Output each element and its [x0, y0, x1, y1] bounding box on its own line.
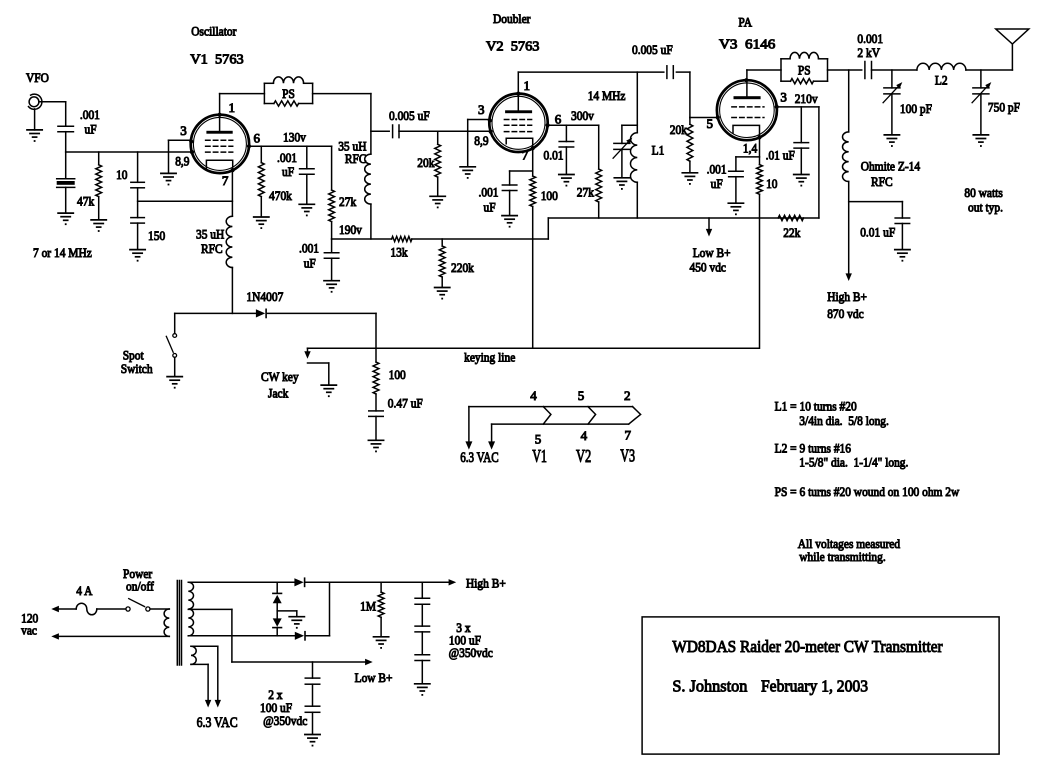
ground 20k V3	[682, 173, 697, 185]
svg-text:1: 1	[524, 78, 531, 93]
diode stack lower	[273, 618, 282, 635]
svg-text:7 or 14 MHz: 7 or 14 MHz	[33, 245, 92, 260]
stage label Doubler	[493, 11, 531, 26]
note L1 line1	[775, 398, 857, 413]
heater rail top	[469, 406, 633, 408]
label L1	[652, 143, 665, 158]
heater 6.3VAC arrow 2	[488, 424, 495, 450]
antenna	[996, 29, 1029, 44]
stage label PA	[738, 15, 752, 30]
parasitic suppressor PS V1	[264, 77, 312, 106]
wire L1 bottom	[636, 182, 638, 218]
note L1 line2	[799, 413, 889, 428]
resistor 27k V1 dropping	[329, 146, 335, 239]
svg-text:10: 10	[766, 176, 777, 191]
tube V1 pin dots	[189, 113, 251, 173]
capacitor 0.001 2kV blocking	[865, 62, 872, 79]
heater 6.3VAC arrow 1	[465, 407, 472, 450]
svg-text:L2 = 9 turns #16: L2 = 9 turns #16	[775, 441, 852, 456]
heater rail bottom	[492, 423, 629, 425]
pin label 6 V1	[254, 131, 261, 146]
svg-text:6: 6	[254, 131, 261, 146]
wire C1 to node A	[65, 132, 67, 152]
resistor 20k V2 grid	[435, 131, 441, 196]
pin 4 V1 heater	[530, 388, 537, 403]
svg-text:Low B+: Low B+	[355, 670, 393, 685]
capacitor C .001 uF VFO coupling	[58, 126, 73, 132]
ground CW key jack	[321, 385, 336, 397]
label 10	[116, 167, 127, 182]
arrow Low B+ takeoff	[706, 218, 712, 237]
svg-text:300v: 300v	[571, 108, 594, 123]
variable capacitor tank V2	[613, 125, 632, 190]
transformer 6.3V winding	[191, 646, 196, 664]
svg-text:100: 100	[541, 188, 558, 203]
label 120	[21, 611, 38, 626]
wire tank cap link	[622, 124, 637, 126]
tube V3 cathode	[733, 125, 760, 137]
svg-text:1N4007: 1N4007	[246, 289, 283, 304]
label Power	[123, 566, 153, 581]
pin label 1 V1	[229, 100, 236, 115]
parasitic suppressor PS V3	[781, 52, 828, 83]
ground 1M	[374, 637, 389, 649]
wire V3 cathode to keying line	[759, 194, 761, 348]
VFO label	[26, 70, 49, 85]
svg-text:150: 150	[148, 228, 165, 243]
label 22k	[783, 225, 801, 240]
label CW key	[261, 369, 299, 384]
label 47k	[77, 194, 95, 209]
ground cathode cap V2	[502, 216, 517, 228]
label .001 cathode V3	[707, 161, 727, 176]
tube V3 envelope	[717, 80, 777, 140]
tube V2 cathode	[506, 138, 533, 148]
label 0.005 uF coupling2	[632, 42, 673, 57]
wire L2 to antenna	[966, 44, 1013, 70]
author text	[672, 677, 747, 696]
label RFC ohmite	[871, 174, 893, 189]
wire keying line	[308, 347, 759, 349]
label 100 uF low	[260, 700, 292, 715]
wire L1 branch	[636, 72, 638, 133]
svg-text:4: 4	[581, 428, 588, 443]
wire V2 plate riser	[517, 72, 519, 110]
svg-text:V2: V2	[576, 446, 591, 466]
label 13k	[390, 245, 408, 260]
svg-text:February 1, 2003: February 1, 2003	[761, 677, 868, 696]
label 190v	[339, 222, 362, 237]
svg-text:uF: uF	[711, 176, 723, 191]
capacitor 0.47 uF key filter	[369, 394, 384, 440]
capacitor 0.005 uF coupling V1-V2	[393, 125, 399, 138]
label 220k	[451, 260, 474, 275]
wire V3 plate riser	[747, 70, 781, 96]
label 14 MHz	[588, 88, 626, 103]
label 0.47 uF	[388, 396, 423, 411]
svg-text:27k: 27k	[577, 185, 595, 200]
svg-text:out typ.: out typ.	[968, 199, 1003, 214]
svg-text:.001: .001	[479, 185, 499, 200]
transformer primary	[164, 609, 169, 636]
ground screen bypass V1	[299, 204, 314, 216]
pin label 3 V3	[780, 90, 787, 105]
svg-text:L2: L2	[935, 73, 948, 88]
label Low B+	[693, 245, 731, 260]
svg-text:22k: 22k	[783, 225, 801, 240]
inductor Ohmite Z-14 RFC	[843, 132, 849, 182]
svg-text:20k: 20k	[417, 155, 435, 170]
label 80 watts	[964, 185, 1002, 200]
label RFC (cathode choke)	[201, 241, 223, 256]
diode 1N4007	[256, 309, 266, 317]
label L2	[935, 73, 948, 88]
wire fuse to switch	[97, 608, 126, 610]
wire V1 pin3 bracket	[169, 140, 192, 173]
pin label 6 V2	[555, 112, 562, 127]
tube designator V1 5763	[190, 53, 243, 68]
wire 6.3V tap top	[191, 646, 221, 707]
pin label 3 V1	[180, 123, 187, 138]
svg-text:Low B+: Low B+	[693, 245, 731, 260]
pin 2 V3 heater	[624, 388, 631, 403]
svg-text:High B+: High B+	[827, 289, 867, 304]
capacitor stack 3x100uF	[415, 582, 430, 683]
capacitor 10 pF feedback	[131, 152, 145, 188]
svg-text:V3 6146: V3 6146	[719, 38, 775, 53]
label 4 A	[76, 583, 93, 598]
label 100 key	[389, 367, 406, 382]
wire HV top line	[188, 579, 456, 585]
label 300v	[571, 108, 594, 123]
label uF cathode V2	[484, 200, 496, 215]
svg-text:450 vdc: 450 vdc	[690, 260, 727, 275]
label 100 uF high	[449, 633, 481, 648]
svg-text:210v: 210v	[795, 91, 818, 106]
wire stack midpoint to ground	[277, 611, 297, 617]
svg-text:@350vdc: @350vdc	[263, 713, 307, 728]
capacitor .001 uF cathode V3 branch	[729, 157, 760, 203]
svg-text:on/off: on/off	[126, 579, 154, 594]
svg-text:10: 10	[116, 167, 127, 182]
label on/off	[126, 579, 154, 594]
svg-text:130v: 130v	[283, 130, 306, 145]
wire center tap	[188, 609, 372, 665]
tube V1 grid dashes	[206, 140, 233, 152]
label 750 pF	[988, 100, 1020, 115]
transformer core	[177, 581, 181, 666]
wire V3 cathode down	[759, 137, 761, 164]
wire V2 pin6 300v line	[548, 124, 599, 126]
svg-text:S. Johnston: S. Johnston	[672, 677, 747, 696]
svg-text:3: 3	[478, 102, 485, 117]
label 450 vdc	[690, 260, 727, 275]
label keying line	[464, 350, 515, 365]
wire diode to key RC	[375, 313, 377, 362]
wire VFO to C1	[39, 102, 66, 126]
ground VFO	[27, 130, 42, 142]
wire V1 pin7 down	[231, 170, 233, 216]
diode rectifier bottom	[295, 632, 305, 640]
label .001	[80, 107, 100, 122]
label Spot	[123, 348, 144, 363]
ground 190v bypass	[324, 281, 339, 293]
pin 4 V2 heater	[581, 428, 588, 443]
capacitor 150 pF feedback	[131, 218, 145, 250]
resistor 100 cathode V2	[530, 176, 536, 207]
inductor L1	[630, 133, 637, 183]
ground padder	[58, 213, 73, 225]
svg-text:0.47 uF: 0.47 uF	[388, 396, 423, 411]
svg-text:V2 5763: V2 5763	[486, 40, 540, 55]
wire V3 pin5	[690, 117, 718, 119]
svg-text:Ohmite Z-14: Ohmite Z-14	[861, 159, 921, 174]
pin label 3 V2	[478, 102, 485, 117]
label 0.01 uF HV	[860, 225, 895, 240]
wire V2 cathode down	[532, 148, 534, 176]
power switch	[126, 599, 150, 612]
note L2 line1	[775, 441, 852, 456]
CW key jack	[308, 363, 329, 385]
wire cathode RFC to key line	[231, 268, 233, 314]
inductor 35 uH RFC plate choke V1	[365, 154, 371, 204]
note voltages line2	[799, 549, 885, 564]
wire 13k to 220k	[412, 238, 548, 240]
resistor 10 cathode V3	[757, 165, 763, 195]
wire low B+ bus	[548, 217, 819, 219]
svg-text:4: 4	[530, 388, 537, 403]
wire V2 pin3 bracket	[468, 120, 490, 167]
label High B+ feed	[827, 289, 867, 304]
wire 190v line	[332, 238, 392, 240]
svg-text:vac: vac	[21, 623, 37, 638]
resistor 220k	[439, 239, 445, 287]
pin label 8,9 V2	[474, 133, 488, 148]
capacitor 0.01 uF screen bypass V2	[559, 125, 574, 174]
capacitor .001 uF 190v bypass	[324, 239, 339, 281]
svg-text:47k: 47k	[77, 194, 95, 209]
spot switch	[166, 313, 176, 376]
svg-text:.01 uF: .01 uF	[766, 148, 795, 163]
label 2 kV	[857, 45, 880, 60]
svg-text:RFC: RFC	[345, 151, 367, 166]
label Low B+ psu	[355, 670, 393, 685]
inductor L2	[917, 63, 966, 70]
pin label 5 V3	[707, 116, 714, 131]
ground 150	[130, 250, 145, 262]
note voltages line1	[798, 536, 901, 551]
wire V1 pin6 130v line	[249, 145, 332, 147]
wire node A main grid line	[66, 151, 192, 153]
label 0.01 V2	[544, 148, 564, 163]
svg-text:PS: PS	[282, 86, 295, 101]
ground 470k	[254, 217, 269, 229]
capacitor .001 uF cathode V2 branch	[502, 171, 532, 215]
label 6.3 VAC psu	[197, 715, 238, 731]
svg-text:while transmitting.: while transmitting.	[799, 549, 885, 564]
ground key filter	[368, 440, 383, 452]
capacitor 0.005 uF coupling V2-V3	[667, 66, 673, 79]
tube V3 plate	[734, 96, 761, 99]
label 20k V2 grid	[417, 155, 435, 170]
tube V2 grid dashes	[504, 120, 531, 132]
capacitor 0.01 uF HV bypass	[849, 202, 910, 250]
svg-text:5: 5	[535, 432, 542, 447]
variable capacitor 100 pF plate tune	[883, 70, 902, 147]
wire RFC to High B+	[846, 182, 852, 282]
svg-text:RFC: RFC	[871, 174, 893, 189]
tube V1 envelope	[191, 115, 249, 173]
label 100 V2	[541, 188, 558, 203]
label 210v	[795, 91, 818, 106]
label 0.005 uF coupling1	[389, 108, 430, 123]
svg-text:L1 = 10 turns #20: L1 = 10 turns #20	[775, 398, 857, 413]
resistor 100 key filter	[373, 362, 379, 394]
resistor 27k V2 screen	[596, 125, 602, 218]
svg-text:VFO: VFO	[26, 70, 49, 85]
diode stack upper	[273, 582, 282, 618]
svg-text:0.01: 0.01	[544, 148, 564, 163]
svg-text:V3: V3	[620, 446, 635, 466]
AC line top with arrow	[51, 606, 76, 612]
tube V1 cathode	[206, 160, 232, 170]
label 2 x	[268, 687, 283, 702]
svg-text:870 vdc: 870 vdc	[827, 306, 864, 321]
heater chevron V2	[588, 407, 596, 425]
tube designator V2 5763	[486, 40, 540, 55]
resistor 470k	[258, 146, 264, 217]
svg-text:0.005 uF: 0.005 uF	[389, 108, 430, 123]
label 100 pF	[900, 101, 932, 116]
pin label 1,4 V3	[743, 141, 758, 156]
wire cap10 to cap150	[137, 188, 139, 218]
wire bridge return	[329, 582, 331, 636]
label uF screen V1	[282, 164, 294, 179]
label 3 x	[456, 620, 471, 635]
note PS	[775, 484, 960, 499]
svg-text:220k: 220k	[451, 260, 474, 275]
capacitor .001 uF screen bypass V1	[300, 146, 315, 204]
label 10 V3	[766, 176, 777, 191]
label @350vdc high	[449, 645, 493, 660]
label 6.3 VAC heater	[460, 450, 499, 466]
title text	[672, 637, 943, 656]
svg-text:7: 7	[625, 428, 632, 443]
heater chevron V1	[543, 407, 551, 425]
svg-text:Oscillator: Oscillator	[191, 24, 237, 39]
inductor 35 uH RFC cathode choke V1	[226, 216, 232, 267]
svg-text:1M: 1M	[360, 599, 376, 614]
date text	[761, 677, 868, 696]
svg-text:2 kV: 2 kV	[857, 45, 880, 60]
label 27k V1	[339, 194, 357, 209]
pin 5 V2 heater	[578, 388, 585, 403]
tube V1 plate	[206, 131, 232, 134]
ground spot switch	[167, 377, 182, 389]
svg-text:2: 2	[624, 388, 631, 403]
ground 20k V2	[430, 196, 445, 208]
tube V2 envelope	[489, 94, 547, 152]
label Jack	[268, 385, 289, 400]
label @350vdc low	[263, 713, 307, 728]
ground V2 pin3	[460, 167, 475, 179]
wire RFC to 190v node	[370, 204, 372, 239]
ground cathode cap V3	[728, 203, 743, 215]
svg-text:27k: 27k	[339, 194, 357, 209]
wire PS V1 to RFC	[313, 94, 371, 155]
svg-text:0.001: 0.001	[857, 31, 883, 46]
label vac	[21, 623, 37, 638]
svg-text:100 pF: 100 pF	[900, 101, 932, 116]
ground 47k	[91, 220, 106, 232]
label 1M	[360, 599, 376, 614]
svg-text:V1: V1	[532, 446, 547, 466]
svg-text:6.3 VAC: 6.3 VAC	[460, 450, 499, 466]
label 35 uH (plate choke)	[338, 139, 366, 154]
wire 22k to 210v node	[818, 107, 820, 218]
wire C3 to V3 grid	[676, 72, 690, 117]
ground 220k	[435, 288, 450, 300]
resistor 47k grid leak	[96, 152, 102, 220]
pin label 8,9 V1	[175, 154, 189, 169]
ground V1 pin3	[161, 173, 176, 185]
label 1N4007	[246, 289, 283, 304]
svg-text:.001: .001	[80, 107, 100, 122]
pin label 1 V2	[524, 78, 531, 93]
capacitor .01 uF screen bypass V3	[794, 107, 809, 174]
label 130v	[283, 130, 306, 145]
resistor 20k V3 grid	[687, 118, 693, 173]
label 27k V2	[577, 185, 595, 200]
label uF cathode V3	[711, 176, 723, 191]
title block box	[642, 617, 999, 754]
svg-text:35 uH: 35 uH	[196, 227, 224, 242]
wire HV bottom line	[188, 635, 329, 637]
svg-text:.001: .001	[277, 150, 297, 165]
svg-text:470k: 470k	[269, 188, 292, 203]
wire C2 to V2 grid	[399, 130, 490, 132]
arrow CW key tip	[304, 348, 310, 359]
tube V3 pin dots	[716, 78, 779, 139]
wire V3 pin3 210v line	[777, 106, 819, 108]
svg-text:5: 5	[707, 116, 714, 131]
svg-text:CW key: CW key	[261, 369, 299, 384]
svg-text:High B+: High B+	[466, 576, 506, 591]
svg-text:6.3 VAC: 6.3 VAC	[197, 715, 238, 731]
label Switch	[121, 361, 153, 376]
wire keying bus 1N4007 line	[175, 312, 376, 314]
wire V1 plate riser	[220, 94, 265, 131]
wire V2 cathode to keying line	[532, 207, 534, 349]
fuse 4A	[76, 603, 97, 615]
ground HV bypass	[895, 250, 910, 262]
wire PS V3 to output	[828, 69, 862, 71]
label .001 190v	[299, 241, 319, 256]
label 7 or 14 MHz	[33, 245, 92, 260]
svg-text:1-5/8" dia. 1-1/4" long.: 1-5/8" dia. 1-1/4" long.	[799, 455, 908, 470]
wire switch to primary	[150, 608, 169, 610]
svg-text:V1 5763: V1 5763	[190, 53, 243, 68]
svg-text:PA: PA	[738, 15, 752, 30]
label uF 190v	[304, 256, 316, 271]
label 20k V3 grid	[670, 122, 688, 137]
label .01 uF V3	[766, 148, 795, 163]
tube V2 pin dots	[488, 92, 550, 151]
VFO input connector	[29, 94, 42, 130]
label Ohmite Z-14	[861, 159, 921, 174]
variable capacitor 750 pF antenna load	[972, 70, 991, 147]
resistor 1M bleeder	[378, 582, 384, 636]
